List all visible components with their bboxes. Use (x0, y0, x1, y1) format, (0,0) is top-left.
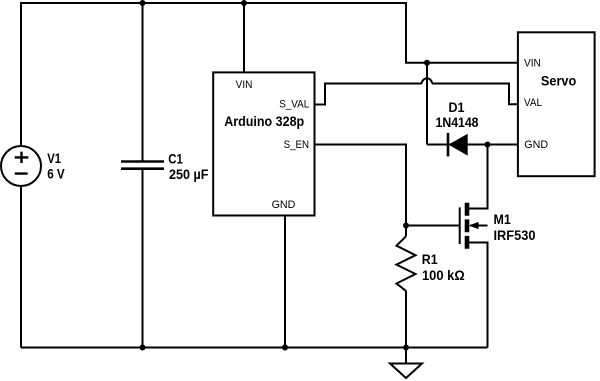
pin label VIN (Servo) (524, 58, 541, 70)
svg-text:S_VAL: S_VAL (279, 99, 309, 111)
svg-text:C1: C1 (168, 151, 183, 167)
wire: S_VAL net from Arduino to hop (315, 84, 422, 105)
svg-text:Arduino 328p: Arduino 328p (224, 113, 304, 129)
label D1 1N4148 (436, 99, 479, 130)
pin label S_EN (284, 139, 310, 151)
wire: gate lead from junction to M1 (406, 225, 460, 227)
svg-text:100 kΩ: 100 kΩ (422, 267, 465, 283)
wire: S_VAL hop over D1 branch (422, 78, 432, 83)
junction: VIN rail / D1 branch (424, 60, 430, 66)
wire: D1 branch from VIN rail (426, 63, 428, 145)
wire: left rail below V1 (20, 186, 22, 348)
wire: top rail from V1 to Servo VIN (21, 3, 518, 146)
wire: R1 bottom to ground rail (405, 291, 407, 348)
pin label VAL (524, 97, 542, 109)
svg-text:GND: GND (272, 199, 296, 211)
svg-text:VIN: VIN (524, 58, 541, 70)
pin label GND (Arduino) (272, 199, 296, 211)
IC Servo box (518, 32, 595, 176)
svg-text:GND: GND (524, 139, 548, 151)
resistor R1 (397, 236, 416, 291)
wire: diode row to Servo GND (427, 144, 518, 146)
junction: bottom rail / Arduino GND (282, 345, 288, 351)
label C1 250 µF (168, 151, 208, 183)
label M1 IRF530 (494, 211, 536, 243)
svg-text:VIN: VIN (236, 79, 253, 91)
svg-text:IRF530: IRF530 (494, 227, 536, 243)
transistor M1 IRF530 (460, 203, 488, 249)
label V1 6 V (47, 150, 65, 182)
svg-text:D1: D1 (449, 99, 465, 115)
label Arduino 328p (224, 113, 304, 129)
pin label GND (Servo) (524, 139, 548, 151)
junction: bottom rail / C1 (140, 345, 146, 351)
junction: diode row / M1 drain (485, 142, 491, 148)
wire: ground stub (405, 348, 407, 364)
pin label VIN (Arduino) (236, 79, 253, 91)
svg-text:R1: R1 (422, 251, 438, 267)
label Servo (541, 72, 576, 88)
pin label S_VAL (279, 99, 309, 111)
svg-text:6 V: 6 V (47, 166, 65, 182)
wire: capacitor C1 bottom branch (142, 169, 144, 348)
svg-text:V1: V1 (47, 150, 61, 166)
ground (390, 364, 422, 379)
wire: Arduino GND to bottom rail (284, 216, 286, 348)
junction: bottom rail / ground (403, 345, 409, 351)
wire: S_EN net from Arduino to R1 (315, 145, 407, 237)
voltage source V1 (1, 146, 41, 186)
svg-text:250 µF: 250 µF (169, 166, 209, 182)
svg-text:VAL: VAL (524, 97, 542, 109)
svg-text:1N4148: 1N4148 (436, 114, 479, 130)
capacitor C1 (121, 162, 164, 169)
junction: S_EN / gate lead (403, 223, 409, 229)
junction: top rail / C1 (140, 0, 146, 6)
wire: M1 drain branch (467, 145, 488, 209)
wire: M1 source to bottom rail (467, 243, 488, 348)
label R1 100 kΩ (422, 251, 465, 283)
wire: bottom ground rail (21, 347, 488, 349)
wire: Arduino VIN feed from top rail (243, 3, 245, 72)
svg-text:S_EN: S_EN (284, 139, 310, 151)
wire: S_VAL net from hop to Servo VAL (432, 84, 518, 105)
diode D1 (448, 133, 468, 157)
svg-text:Servo: Servo (541, 72, 576, 88)
svg-text:M1: M1 (494, 211, 511, 227)
op-amp U1 Arduino 328p box (213, 72, 314, 215)
junction: top rail / Arduino VIN (241, 0, 247, 6)
wire: capacitor C1 top branch (142, 3, 144, 161)
